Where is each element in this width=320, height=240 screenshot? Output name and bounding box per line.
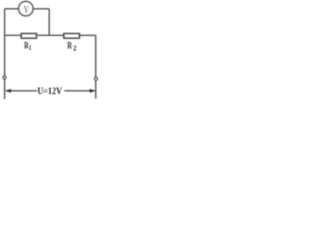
wire top branch left xyxy=(5,8,19,10)
wire between R1 and R2 xyxy=(37,34,64,36)
svg-text:1: 1 xyxy=(29,43,31,52)
wire dimension shaft left xyxy=(10,90,37,92)
resistor R2 xyxy=(64,34,80,39)
arrow right xyxy=(90,89,95,92)
wire right rail upper xyxy=(95,35,97,77)
wire voltmeter branch vertical xyxy=(48,9,50,36)
terminal right xyxy=(94,77,98,81)
terminal left xyxy=(2,76,6,80)
wire left rail upper xyxy=(4,9,6,76)
wire right rail lower xyxy=(95,80,97,98)
svg-text:2: 2 xyxy=(73,44,76,53)
wire dimension shaft right xyxy=(64,90,91,92)
svg-text:R: R xyxy=(67,41,72,52)
arrow left xyxy=(6,89,11,92)
svg-text:U=12V: U=12V xyxy=(37,86,62,97)
svg-text:V: V xyxy=(24,5,29,16)
resistor R1 xyxy=(21,34,36,39)
wire left rail lower xyxy=(4,79,6,99)
wire R2 to right corner xyxy=(79,34,95,36)
wire main horizontal left xyxy=(5,34,22,36)
wire top branch right xyxy=(33,8,49,10)
voltmeter U1 circle xyxy=(19,1,34,16)
